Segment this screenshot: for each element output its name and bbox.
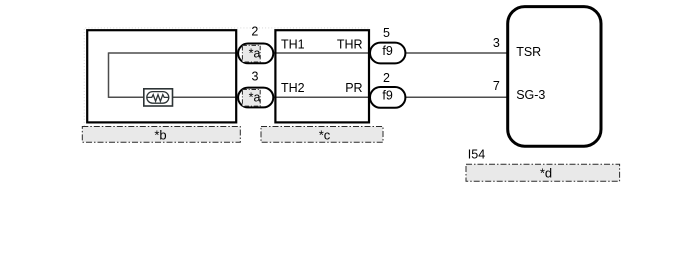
svg-text:3: 3: [493, 36, 500, 50]
svg-text:f9: f9: [382, 44, 392, 58]
svg-text:2: 2: [383, 71, 390, 85]
connector f9 bottom oval: [370, 87, 405, 108]
svg-text:PR: PR: [345, 81, 362, 95]
thermistor symbol outer rect: [144, 89, 173, 106]
svg-text:TH1: TH1: [281, 38, 305, 52]
svg-text:*c: *c: [319, 127, 331, 142]
svg-text:7: 7: [493, 79, 500, 93]
connector label *b box: [82, 127, 240, 143]
svg-text:*a: *a: [249, 91, 261, 105]
connector f9 top oval: [370, 43, 405, 64]
assembly dash-dot outline (faint): [84, 28, 369, 126]
connector label *d box: [466, 164, 620, 181]
svg-text:*b: *b: [154, 127, 166, 142]
thermistor stadium: [147, 92, 169, 104]
wire row 2 (TH2/PR/SG-3 net): [109, 96, 507, 98]
svg-text:SG-3: SG-3: [516, 88, 545, 102]
transmission wire box: [275, 30, 369, 122]
svg-text:TSR: TSR: [516, 45, 541, 59]
svg-text:2: 2: [251, 24, 258, 38]
ECM box: [508, 7, 601, 147]
svg-text:I54: I54: [468, 148, 485, 162]
connector *a pin 3 oval: [238, 88, 273, 108]
svg-text:5: 5: [383, 26, 390, 40]
svg-text:TH2: TH2: [281, 81, 305, 95]
svg-text:THR: THR: [337, 38, 363, 52]
svg-text:*d: *d: [540, 166, 552, 181]
svg-text:*a: *a: [249, 46, 261, 60]
svg-text:3: 3: [252, 70, 259, 84]
connector label *c box: [261, 127, 383, 143]
wire row 1 (TH1/THR/TSR net): [109, 52, 507, 54]
wire loop vertical in sensor: [108, 52, 110, 98]
ATF temperature sensor box: [87, 30, 236, 122]
thermistor element line + zigzag: [147, 95, 169, 102]
svg-text:f9: f9: [382, 89, 392, 103]
connector *a pin 2 oval: [238, 44, 273, 64]
